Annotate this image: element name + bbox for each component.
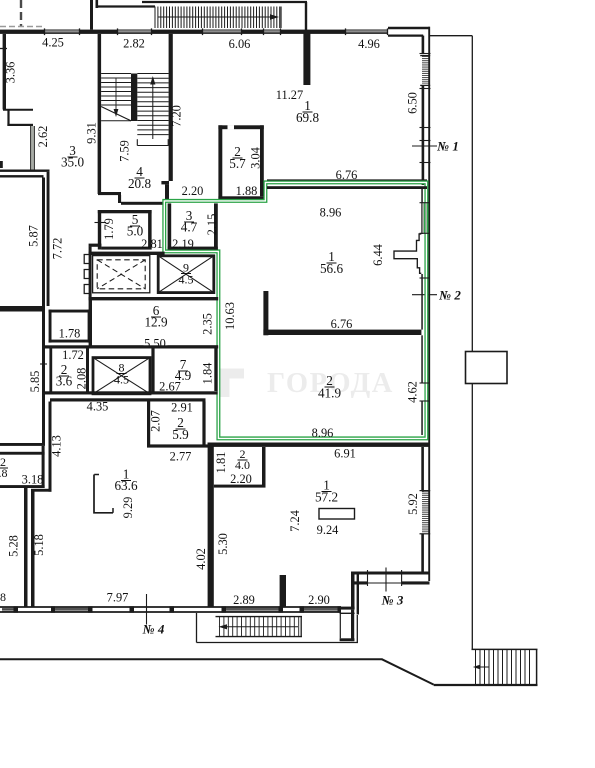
svg-text:5.28: 5.28 (6, 535, 20, 557)
window W2 2.82 (117, 29, 152, 31)
svg-text:2.89: 2.89 (233, 593, 255, 607)
svg-text:2.77: 2.77 (170, 450, 192, 464)
svg-text:.8: .8 (0, 466, 8, 480)
wall stub below top wall in room 1 (303, 33, 310, 85)
room 4.7 right wall (214, 203, 218, 249)
tick on left wall (40, 363, 47, 365)
upper corridor stair hatch (155, 7, 280, 29)
stub wall between windows (280, 575, 286, 607)
landing niche walls below stairwell (98, 192, 121, 195)
walkway edge below entrance 4 (196, 613, 198, 643)
svg-text:5.18: 5.18 (32, 534, 46, 556)
svg-text:7.24: 7.24 (288, 510, 302, 532)
closet 5.7 right wall (260, 125, 264, 196)
svg-text:2.67: 2.67 (159, 380, 181, 394)
niche below room 35.0 (3, 109, 33, 111)
svg-text:35.0: 35.0 (61, 155, 84, 170)
svg-text:4.62: 4.62 (406, 381, 420, 403)
svg-text:3.04: 3.04 (249, 147, 263, 169)
svg-text:4.35: 4.35 (87, 400, 109, 414)
entrance 3 side wall (351, 575, 355, 610)
corridor wall below row (50, 398, 206, 401)
section boundary line right (471, 36, 473, 649)
plot boundary diagonal (382, 659, 434, 684)
plot boundary walk line (0, 658, 383, 660)
svg-text:20.8: 20.8 (128, 176, 151, 191)
room 2/3.6 right wall (86, 349, 89, 395)
window W5 4.96 (345, 29, 388, 31)
service core left zigzag wall (89, 247, 92, 300)
room 3.18 top wall (0, 452, 45, 455)
entrance mark no.1 (412, 145, 437, 147)
svg-text:3.36: 3.36 (3, 62, 17, 84)
entrance 3 porch (351, 610, 354, 642)
entrance mark no.3 (385, 568, 387, 592)
row top wall (45, 345, 218, 348)
left edge mark (0, 161, 3, 168)
closet 5.7 left wall (218, 125, 222, 199)
closet 5.7 top wall (218, 125, 263, 129)
tick on room 5.0 left wall (95, 222, 107, 224)
svg-text:6.44: 6.44 (371, 244, 385, 266)
stairwell right wall (169, 34, 173, 181)
svg-text:2.62: 2.62 (36, 126, 50, 148)
svg-text:56.6: 56.6 (320, 261, 343, 276)
svg-text:1.79: 1.79 (102, 218, 116, 240)
stair bottom right (472, 648, 538, 650)
entrance 3 wall step (351, 572, 430, 575)
svg-text:4.02: 4.02 (194, 548, 208, 570)
svg-text:1.88: 1.88 (236, 184, 258, 198)
room 2/4.0 walls (262, 447, 266, 488)
svg-text:5.7: 5.7 (229, 156, 246, 171)
room 5.0 walls (98, 210, 152, 213)
closet 5.7 bottom wall (218, 196, 263, 199)
closet 5.7 door gap in top wall (228, 125, 235, 129)
svg-text:2.35: 2.35 (201, 313, 215, 335)
interior line right wall within apartment (421, 189, 423, 234)
annotation box on boundary line (466, 352, 508, 384)
svg-text:2.07: 2.07 (148, 410, 162, 432)
bottom wall solid caps (14, 606, 19, 612)
room 5.85 bottom wall (0, 443, 45, 446)
svg-text:2.19: 2.19 (172, 237, 194, 251)
svg-text:7.97: 7.97 (107, 591, 129, 605)
window bottom B2 7.97a (55, 607, 88, 609)
exterior right wall outer line (428, 27, 430, 581)
stairwell left wall 9.31 (98, 34, 102, 194)
room 7/4.9 left wall (151, 349, 154, 395)
row bottom wall (42, 391, 218, 394)
left room bottom wall (0, 306, 45, 312)
svg-text:8.96: 8.96 (312, 426, 334, 440)
window right wall 5.92 (422, 491, 429, 493)
stairwell wall jog (161, 181, 169, 184)
room 2/5.9 walls (147, 402, 150, 448)
tick on right wall below stub (420, 277, 431, 279)
room 1/63.6 L-partition (94, 475, 113, 513)
svg-text:5.92: 5.92 (406, 493, 420, 515)
svg-text:2.90: 2.90 (308, 593, 330, 607)
exterior right wall inner, upper segment (422, 36, 425, 55)
stair flight right bottom landing (137, 145, 168, 147)
window on right wall (apartment, upper) (422, 203, 427, 233)
main vertical wall between 63.6 and 57.2 (208, 443, 214, 608)
wall below apartment 41.9 (6.91) (208, 443, 429, 447)
wall above elevators (89, 252, 165, 255)
svg-text:8: 8 (0, 590, 6, 604)
svg-text:2.15: 2.15 (205, 214, 219, 236)
wall stub T-shape in room 56.6 (394, 234, 421, 273)
svg-text:6.91: 6.91 (334, 447, 356, 461)
svg-text:№ 4: № 4 (142, 622, 165, 637)
window W1 4.25 (44, 29, 80, 31)
svg-text:69.8: 69.8 (296, 110, 319, 125)
svg-text:5.85: 5.85 (28, 371, 42, 393)
svg-text:7.72: 7.72 (50, 238, 64, 260)
svg-text:2.20: 2.20 (182, 184, 204, 198)
svg-text:1.84: 1.84 (201, 363, 215, 385)
partition wall 56.6/41.9 (263, 291, 268, 335)
window bottom B4 2.90 (304, 607, 338, 609)
window W3 6.06 (202, 29, 242, 31)
watermark logo (219, 369, 244, 398)
svg-text:4.96: 4.96 (358, 37, 380, 51)
left exterior wall room 35.0 (3, 34, 6, 110)
wall stub above (cut) (90, 0, 93, 30)
wall corner above room 1 (305, 2, 307, 33)
stair down arrow small (115, 78, 117, 112)
svg-text:№ 2: № 2 (438, 288, 461, 303)
entrance mark no.4 (146, 594, 148, 625)
corridor wall vertical left (42, 178, 45, 444)
stair up arrow (152, 81, 154, 139)
exterior top wall right part (double line) (388, 27, 430, 29)
room 6/12.9 walls (89, 297, 219, 300)
exterior top wall (0, 30, 44, 34)
right wall joint ticks (420, 53, 431, 55)
section boundary connector (429, 35, 472, 37)
svg-text:5.30: 5.30 (216, 533, 230, 555)
svg-text:6.06: 6.06 (229, 37, 251, 51)
entrance 4 stair hatch (216, 616, 303, 618)
svg-text:7.20: 7.20 (169, 105, 183, 127)
apartment boundary highlight (green double line) (164, 182, 426, 438)
svg-text:57.2: 57.2 (315, 490, 338, 505)
svg-text:4.25: 4.25 (42, 36, 64, 50)
svg-text:№ 3: № 3 (381, 593, 404, 608)
window left wall 2.62 (31, 126, 35, 170)
niche box 1.78 (49, 310, 52, 343)
left lower double walls (24, 488, 28, 607)
entrance 4 stair arrow (224, 626, 298, 628)
svg-text:3.6: 3.6 (56, 374, 73, 389)
corridor double wall horizontal 7.72 top (0, 170, 50, 172)
window W4 6.06b (263, 29, 281, 31)
svg-text:№ 1: № 1 (436, 139, 459, 154)
svg-text:9.29: 9.29 (121, 497, 135, 519)
svg-text:10.63: 10.63 (223, 302, 237, 330)
stair flight left diagonal cut (101, 107, 131, 121)
stair flight left treads (101, 73, 131, 75)
corridor wall vertical right (to 1.78 box) (47, 172, 50, 306)
svg-text:63.6: 63.6 (114, 478, 137, 493)
elevator 8 (4.5) (93, 358, 150, 394)
svg-text:6.50: 6.50 (405, 92, 419, 114)
corner wall to room5 (89, 244, 102, 247)
window bottom B3 2.89 (226, 607, 279, 609)
svg-text:4.5: 4.5 (179, 273, 194, 287)
wall stub above-left (cut, dashed) (20, 0, 22, 27)
apartment top divider wall 56.6/69.8 (267, 179, 427, 181)
svg-text:7.59: 7.59 (118, 140, 132, 162)
svg-text:4.5: 4.5 (114, 373, 129, 387)
elevator 9 (4.5) (158, 256, 214, 293)
building section above (cut), corridor slab line (97, 5, 156, 7)
svg-text:2.82: 2.82 (123, 37, 145, 51)
svg-text:2.91: 2.91 (171, 401, 193, 415)
svg-text:3.18: 3.18 (22, 473, 44, 487)
svg-text:2.20: 2.20 (230, 472, 252, 486)
right wall lower segment (421, 447, 424, 491)
svg-text:2.08: 2.08 (75, 368, 89, 390)
room 4.7 left wall (168, 203, 172, 249)
upper stair direction arrow (158, 16, 273, 18)
svg-text:6.76: 6.76 (331, 317, 353, 331)
svg-text:9.31: 9.31 (85, 122, 99, 144)
svg-text:5.87: 5.87 (26, 225, 40, 247)
exterior right wall inner, segments to green start (422, 85, 425, 185)
svg-text:2.81: 2.81 (141, 237, 163, 251)
room 7/4.9 right wall (214, 349, 217, 392)
svg-text:4.7: 4.7 (181, 220, 198, 235)
room 3.18 bottom wall (0, 485, 45, 488)
stair flight right treads (137, 73, 168, 75)
svg-text:12.9: 12.9 (144, 315, 167, 330)
svg-text:1.72: 1.72 (62, 348, 84, 362)
bottom exterior wall double line (0, 606, 341, 608)
window on right wall (apartment, lower 4.62) (420, 382, 430, 384)
svg-text:9.24: 9.24 (317, 523, 339, 537)
svg-text:8.96: 8.96 (320, 206, 342, 220)
stair bottom right arrow (477, 666, 489, 668)
room 2/3.6 left wall (49, 349, 52, 392)
svg-text:11.27: 11.27 (276, 88, 303, 102)
window bottom B1 (2, 607, 14, 609)
svg-text:5.9: 5.9 (172, 427, 189, 442)
window right wall 6.50 room (422, 56, 429, 58)
stair mid wall (131, 74, 137, 122)
svg-text:41.9: 41.9 (318, 386, 341, 401)
svg-text:4.0: 4.0 (235, 458, 250, 472)
elevator shaft (dashed) (93, 256, 150, 293)
svg-text:1.81: 1.81 (214, 452, 228, 474)
room 3.18 right wall (42, 446, 45, 488)
room 4.7 bottom wall (168, 247, 218, 250)
svg-text:1.78: 1.78 (59, 327, 81, 341)
plot boundary lower line (434, 684, 538, 686)
entrance mark no.2 (412, 294, 437, 296)
